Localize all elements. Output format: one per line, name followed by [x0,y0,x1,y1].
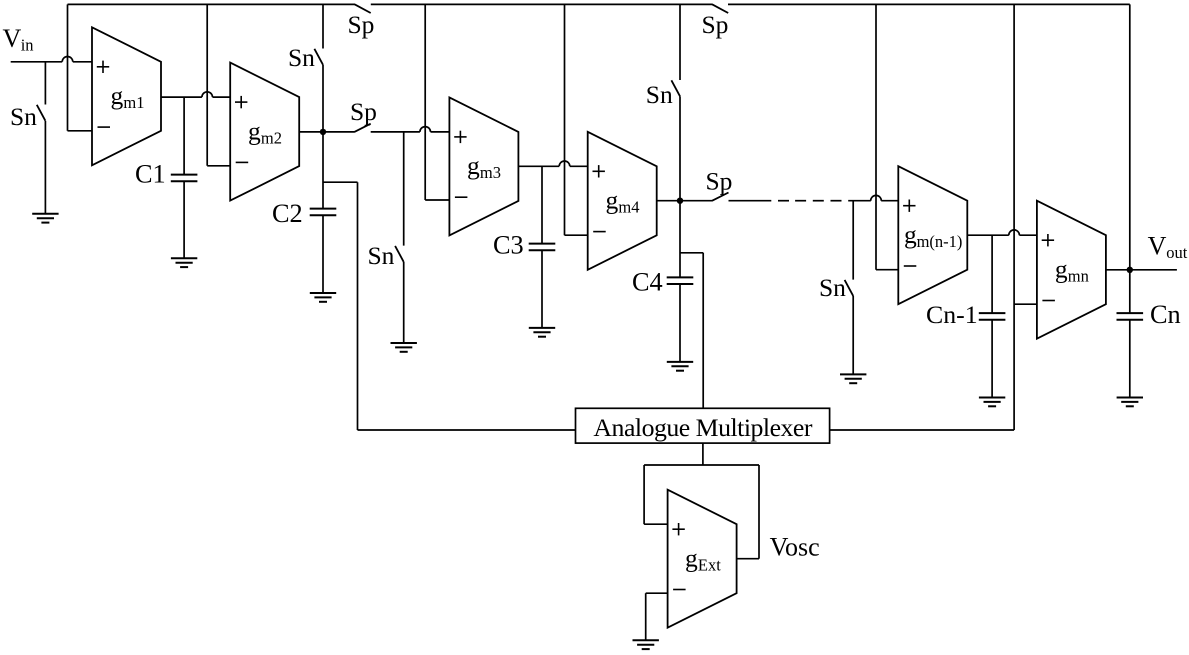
wire gm4 output row to Sp switch [657,200,713,202]
label Sn [368,241,395,270]
wire capacitor C2 branch [322,132,324,293]
wire feedback vertical to gm1 - input (node 1) [68,4,93,130]
op-amp OTA gm4 [588,132,657,270]
capacitor C3 [529,244,556,251]
label Sn [10,102,37,131]
wire gmn output to Vout [1106,269,1177,271]
wire feedback vertical to gmn - input and down to multiplexer [830,4,1037,430]
svg-text:Cn-1: Cn-1 [926,300,978,329]
wire Sp switch to gm3 + input [371,127,450,132]
label gm2 [248,116,282,147]
switch Sp (stage 2-3) [354,124,370,132]
ground [840,374,866,383]
svg-text:V: V [3,24,22,53]
svg-text:Sn: Sn [819,273,846,302]
svg-text:m3: m3 [480,163,501,182]
capacitor Cn-1 [979,313,1006,320]
label Vout [1148,232,1188,263]
svg-text:Sn: Sn [10,102,37,131]
wire C2 node to analogue multiplexer [323,182,576,430]
wire Sn input switch branch from Vin node [44,62,46,213]
label Vosc [770,533,820,562]
svg-text:Sn: Sn [368,241,395,270]
wire Sn branch below gm(n-1) input [852,201,854,374]
label Sn [646,80,673,109]
label gmn [1055,255,1089,286]
ground [171,258,197,267]
label Sn [288,43,315,72]
ground [633,640,659,649]
svg-text:g: g [248,116,261,145]
label C2 [272,199,303,228]
op-amp OTA gExt [668,490,737,628]
label Vin [3,24,34,55]
label Sp [350,97,377,126]
op-amp OTA gmn [1037,201,1106,339]
wire capacitor C3 branch [541,166,543,327]
switch Sn (stage 3) [395,246,404,262]
svg-text:Ext: Ext [698,556,721,575]
wire solid segment to gm(n-1) + input [848,195,898,200]
svg-text:Sn: Sn [288,43,315,72]
wire Sn branch below gm3 input [403,132,405,342]
switch Sn (input) [37,105,46,121]
wire feedback vertical to gm2 - input [207,4,230,165]
ground [979,398,1005,407]
svg-text:C1: C1 [135,160,166,189]
node Vout junction [1127,267,1133,273]
wire Sp switch solid segment [729,200,772,202]
label Cn-1 [926,300,978,329]
node gm4 output junction [677,198,683,204]
svg-text:Sp: Sp [702,10,729,39]
wire feedback vertical to gm4 - input [565,4,588,235]
wire capacitor C1 branch [183,97,185,258]
capacitor C1 [171,175,198,182]
svg-text:Sp: Sp [350,97,377,126]
label C1 [135,160,166,189]
wire feedback vertical to gm3 - input [425,4,449,200]
switch Sp (stage 4-5) [712,193,728,201]
svg-text:g: g [904,220,917,249]
wire gm1 output to gm2 + input [161,92,230,97]
switch Sn (stage 4) [671,80,680,96]
wire capacitor C4 branch [679,201,681,362]
wire gm2 output row to Sp switch [299,131,355,133]
svg-text:Sn: Sn [646,80,673,109]
label gm4 [606,186,640,217]
svg-text:in: in [21,36,34,55]
svg-text:Sp: Sp [348,10,375,39]
svg-text:Sp: Sp [706,167,733,196]
label C3 [493,231,524,260]
wire rail to gm4 output via Sn switch [679,4,681,200]
svg-text:C3: C3 [493,231,524,260]
switch Sp (top rail, right) [712,4,728,13]
wire feedback vertical to gm(n-1) - input [876,4,898,269]
svg-text:out: out [1166,243,1188,262]
label Analogue Multiplexer [593,413,812,442]
node gm2 output junction [320,129,326,135]
label Sp [706,167,733,196]
wire dashed continuation (omitted stages) [778,200,842,202]
svg-text:C2: C2 [272,199,303,228]
ground [1117,398,1143,407]
label Sp [702,10,729,39]
op-amp OTA gm2 [230,63,299,201]
svg-text:Vosc: Vosc [770,533,820,562]
svg-text:m(n-1): m(n-1) [917,232,963,251]
capacitor Cn [1117,313,1144,320]
svg-text:g: g [606,186,619,215]
label gm1 [111,81,145,112]
svg-text:m1: m1 [123,93,144,112]
svg-text:Cn: Cn [1150,300,1181,329]
label Cn [1150,300,1181,329]
ground [529,328,555,337]
wire loop right from gExt output [737,465,759,559]
label gm3 [467,151,501,182]
svg-text:g: g [685,544,698,573]
svg-text:g: g [1055,255,1068,284]
wire multiplexer bottom to gExt loop [702,443,704,465]
svg-text:m2: m2 [261,128,282,147]
wire loop left to gExt + input [644,465,668,524]
capacitor C2 [310,209,337,216]
label Sp [348,10,375,39]
wire top feedback rail (Vout to gm1 inverting input) [68,3,1130,5]
wire rail corner down to Vout node [1129,4,1131,269]
svg-text:C4: C4 [632,268,663,297]
svg-text:mn: mn [1068,267,1089,286]
label gm(n-1) [904,220,962,251]
capacitor C4 [667,277,694,284]
wire gm(n-1) output to gmn + input [967,230,1037,235]
switch Sp (top rail, left) [355,4,371,13]
wire gExt - input to ground [646,593,668,640]
switch Sn (stage 2) [314,49,323,65]
ground [32,214,58,223]
analogue multiplexer box [576,408,830,443]
switch Sn (stage n-1) [845,280,854,296]
ground [310,293,336,302]
ground [667,362,693,371]
op-amp OTA gm1 [92,27,161,165]
ground [391,343,417,352]
svg-text:V: V [1148,232,1167,261]
wire gExt feedback loop top [644,464,759,466]
wire gm3 output to gm4 + input [518,161,587,166]
svg-text:m4: m4 [618,198,639,217]
svg-text:g: g [467,151,480,180]
op-amp OTA gm3 [449,97,518,235]
op-amp OTA gm(n-1) [898,166,967,304]
svg-text:Analogue Multiplexer: Analogue Multiplexer [593,413,812,442]
wire Vin input line to gm1 + input [11,56,92,61]
wire C4 node to analogue multiplexer [680,253,703,408]
svg-text:g: g [111,81,124,110]
label Sn [819,273,846,302]
label gExt [685,544,721,575]
wire rail to gm2 output via Sn switch [322,4,324,131]
wire capacitor Cn-1 branch [991,235,993,397]
wire capacitor Cn branch [1129,270,1131,397]
label C4 [632,268,663,297]
